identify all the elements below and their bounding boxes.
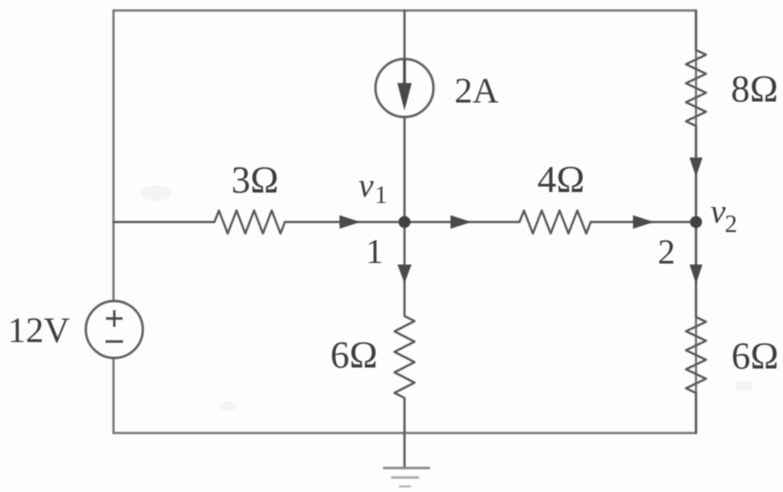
svg-text:6Ω: 6Ω — [330, 335, 377, 377]
svg-text:2: 2 — [725, 211, 738, 238]
svg-text:6Ω: 6Ω — [731, 336, 778, 378]
svg-text:4Ω: 4Ω — [537, 159, 584, 201]
svg-text:v: v — [358, 168, 374, 205]
svg-text:1: 1 — [375, 182, 388, 209]
svg-text:2A: 2A — [455, 71, 499, 111]
svg-text:2: 2 — [658, 233, 676, 272]
svg-text:1: 1 — [366, 232, 384, 271]
svg-text:8Ω: 8Ω — [731, 69, 778, 111]
svg-text:3Ω: 3Ω — [231, 160, 278, 202]
svg-text:12V: 12V — [8, 310, 70, 350]
